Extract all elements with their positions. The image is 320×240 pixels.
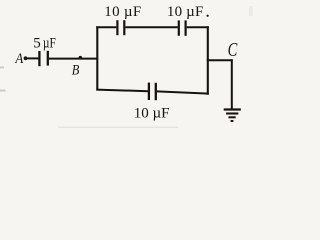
C1 value label 5 uF: [33, 36, 56, 52]
top branch wire left segment: [96, 26, 116, 28]
svg-text:A: A: [15, 51, 24, 67]
top branch wire right segment: [187, 26, 209, 28]
capacitor C2 10uF top-left: [117, 20, 124, 35]
svg-text:10 µF: 10 µF: [134, 105, 170, 121]
C3 value label 10 uF: [167, 4, 209, 20]
node B junction dot: [79, 56, 82, 59]
bottom branch wire left segment: [96, 90, 148, 92]
wire from C1 through node B to left rail: [49, 58, 98, 60]
svg-text:5: 5: [33, 36, 41, 52]
ground symbol: [224, 110, 241, 122]
svg-text:10 µF: 10 µF: [104, 4, 141, 20]
right rail wire: [207, 26, 209, 95]
svg-text:10 µF: 10 µF: [167, 4, 203, 20]
top branch wire middle segment: [125, 26, 177, 28]
capacitor C4 10uF bottom: [149, 83, 156, 101]
svg-text:C: C: [228, 39, 238, 61]
capacitor C3 10uF top-right: [179, 20, 186, 35]
svg-text:µF: µF: [43, 36, 56, 52]
wire from right rail to node C stub: [207, 59, 233, 61]
node A junction dot: [24, 56, 28, 60]
wire from node A to capacitor C1: [26, 57, 39, 59]
capacitor C1 5uF: [39, 51, 47, 66]
bottom branch wire right segment: [157, 91, 209, 93]
wire node C down to ground: [231, 59, 233, 109]
svg-text:B: B: [72, 62, 80, 78]
left rail wire: [96, 26, 98, 90]
